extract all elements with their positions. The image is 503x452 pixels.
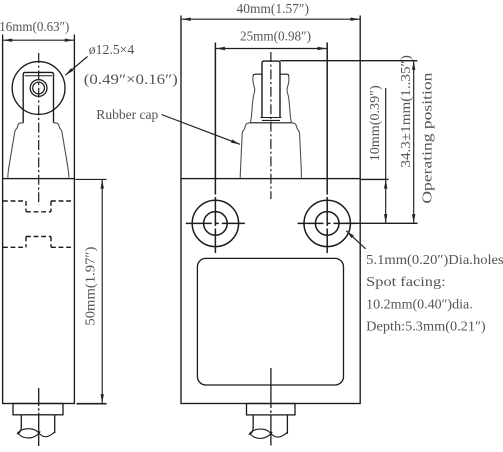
- bottom gland narrow neck right: [54, 415, 56, 433]
- right view body outline: [181, 179, 360, 404]
- 16mm left arrow: [3, 39, 12, 42]
- dashed step vertical bottom-right: [50, 237, 52, 248]
- roller pin inner circle: [33, 82, 45, 94]
- right hole vertical centerline / 25mm extension: [326, 43, 328, 254]
- hole dashed line lower: [26, 236, 51, 238]
- right mounting hole spot-facing circle: [304, 200, 350, 246]
- body top extension line (right): [360, 178, 388, 180]
- sleeve rim left: [253, 74, 262, 76]
- svg-text:10.2mm(0.40″)dia.: 10.2mm(0.40″)dia.: [366, 296, 473, 311]
- rubber bellows left profile (side view): [8, 123, 23, 178]
- 10mm top arrow: [384, 180, 387, 189]
- 34.3 top arrow: [412, 61, 415, 70]
- 50mm bottom arrow: [101, 394, 104, 403]
- 16mm right arrow: [65, 39, 74, 42]
- right view centerline bottom segment: [270, 368, 272, 446]
- left view head left edge (extension up to 16mm dim): [2, 35, 4, 179]
- svg-text:5.1mm(0.20″)Dia.holes: 5.1mm(0.20″)Dia.holes: [366, 252, 503, 267]
- 50mm dimension line: [101, 180, 103, 404]
- roller wheel circle: [12, 62, 65, 115]
- hole dashed line upper: [26, 211, 51, 213]
- right gland neck left: [250, 415, 253, 434]
- dashed step vertical top-left: [25, 201, 27, 212]
- svg-text:Operating position: Operating position: [420, 72, 435, 203]
- 10mm dimension line: [385, 180, 387, 224]
- roller leader line: [65, 57, 87, 76]
- plunger pin bottom line 1: [261, 117, 282, 119]
- rubber cap leader line: [162, 115, 241, 145]
- svg-text:Rubber cap: Rubber cap: [96, 107, 158, 122]
- 40mm left arrow: [182, 18, 191, 21]
- hole centerline extension line (right): [345, 222, 418, 224]
- 34.3 bottom arrow: [412, 214, 415, 223]
- 25mm right arrow: [318, 47, 327, 50]
- svg-text:ø12.5×4: ø12.5×4: [89, 42, 135, 57]
- 50mm bottom extension tick: [77, 403, 107, 405]
- rubber bellows right profile (side view): [54, 123, 69, 178]
- right cable break lens upper arc: [249, 429, 271, 435]
- svg-text:16mm(0.63″): 16mm(0.63″): [0, 19, 69, 35]
- svg-text:40mm(1.57″): 40mm(1.57″): [237, 1, 310, 17]
- svg-text:Spot facing:: Spot facing:: [366, 274, 446, 289]
- 10mm bottom arrow: [384, 214, 387, 223]
- rubber cap bellows left profile (front view): [240, 123, 250, 178]
- plunger pin bottom line 2: [262, 119, 280, 121]
- svg-text:Depth:5.3mm(0.21″): Depth:5.3mm(0.21″): [366, 319, 486, 334]
- 25mm left arrow: [216, 47, 225, 50]
- left hole vertical centerline / 25mm extension: [214, 43, 216, 254]
- note leader arrow: [346, 231, 354, 238]
- body left edge extension up to 40mm dim: [180, 16, 182, 179]
- lever top inner line: [25, 75, 52, 77]
- spot-face dashed line top-right: [51, 200, 74, 202]
- svg-text:50mm(1.97″): 50mm(1.97″): [82, 247, 98, 326]
- cable break lens upper arc: [17, 429, 39, 435]
- dashed step vertical bottom-left: [25, 237, 27, 248]
- 34.3 dimension line: [413, 61, 415, 223]
- cable break right dip arc: [39, 432, 55, 437]
- right cable break lens lower arc: [250, 432, 273, 439]
- svg-text:10mm(0.39″): 10mm(0.39″): [367, 85, 383, 161]
- sleeve wavy left side: [250, 76, 254, 123]
- right cable break dip arc: [271, 432, 287, 437]
- right gland neck right: [286, 415, 288, 434]
- sleeve bottom edge: [250, 122, 291, 124]
- left view centerline top segment: [38, 53, 40, 205]
- sleeve rim right: [280, 74, 289, 76]
- 10mm dimension tail line: [385, 88, 387, 179]
- left hole horizontal crosshair: [186, 222, 245, 224]
- left view body outline: [3, 179, 75, 404]
- svg-text:34.3±1mm(1..35″): 34.3±1mm(1..35″): [398, 55, 414, 168]
- spot-face dashed line bottom-left: [3, 246, 26, 248]
- svg-text:(0.49″×0.16″): (0.49″×0.16″): [84, 72, 178, 88]
- 40mm right arrow: [351, 18, 360, 21]
- cable break lens lower arc: [18, 431, 41, 438]
- 50mm top arrow: [101, 180, 104, 189]
- left mounting hole circle: [204, 212, 228, 236]
- right view centerline top segment: [270, 52, 272, 199]
- right gland flange: [247, 404, 296, 415]
- bottom gland flange: [13, 404, 63, 415]
- 50mm top extension tick: [76, 178, 107, 180]
- roller leader arrow: [65, 68, 73, 75]
- cover plate rounded rectangle: [197, 258, 343, 385]
- spot-face dashed line top-left: [3, 200, 26, 202]
- bottom gland narrow neck left: [18, 415, 21, 434]
- roller pin outer circle: [30, 80, 47, 97]
- dashed step vertical top-right: [50, 201, 52, 212]
- rubber cap leader arrow: [231, 140, 240, 145]
- left view hidden hole section (dashed): [3, 201, 74, 247]
- right hole horizontal crosshair: [298, 222, 357, 224]
- 40mm dimension line: [182, 18, 360, 20]
- 16mm dimension line: [3, 39, 74, 41]
- plunger top extension line: [280, 60, 417, 62]
- body right edge extension up to 40mm dim: [359, 16, 361, 179]
- sleeve wavy right side: [287, 76, 291, 123]
- spot-face dashed line bottom-right: [51, 246, 74, 248]
- plunger pin: [262, 61, 280, 117]
- left view centerline bottom segment: [38, 388, 40, 446]
- right mounting hole circle: [315, 212, 339, 236]
- rubber cap bellows right profile (front view): [292, 123, 302, 178]
- note leader line: [346, 231, 365, 249]
- left mounting hole spot-facing circle: [192, 200, 238, 246]
- lever shaft rectangle: [23, 72, 53, 123]
- svg-text:25mm(0.98″): 25mm(0.98″): [240, 29, 311, 45]
- left view head right edge (extension up to 16mm dim): [73, 35, 75, 179]
- 25mm dimension line: [216, 48, 327, 50]
